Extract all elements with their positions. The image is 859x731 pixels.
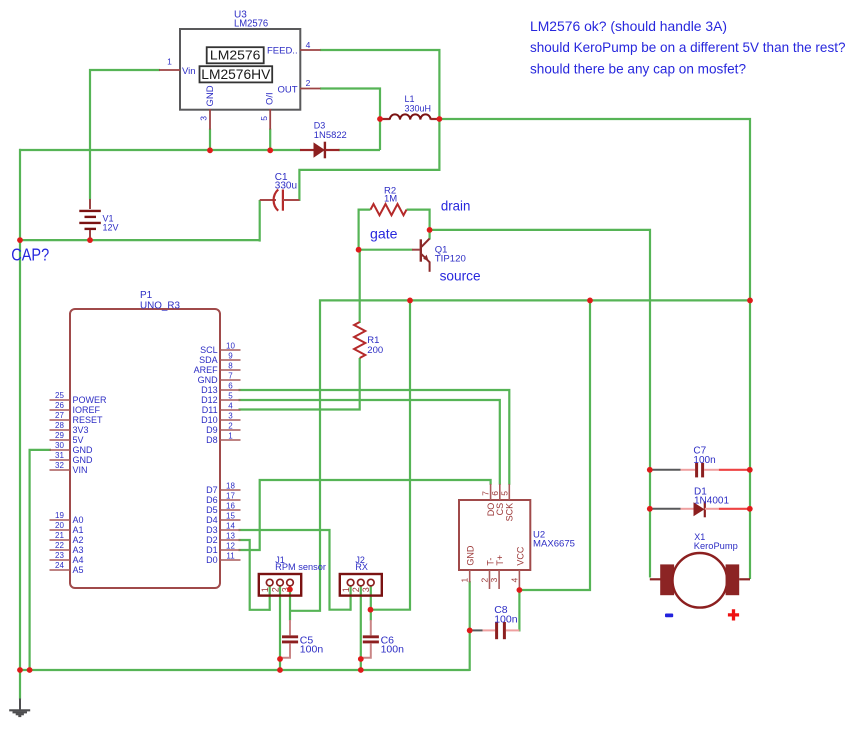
wire D13 to U2 SCK bbox=[239, 390, 510, 485]
svg-text:LM2576HV: LM2576HV bbox=[201, 67, 270, 82]
wire U2 VCC down to C8 bbox=[518, 589, 520, 632]
wire Vin input from battery + bbox=[90, 70, 160, 199]
D1 left lead grey bbox=[651, 508, 681, 510]
P1 pin 28 3V3 bbox=[50, 429, 71, 431]
P1 pin 19 A0 bbox=[50, 519, 71, 521]
pin 3 GND stub bbox=[209, 109, 211, 130]
C7 plate right bbox=[701, 463, 704, 478]
svg-text:18: 18 bbox=[226, 481, 235, 490]
svg-text:GND: GND bbox=[198, 375, 219, 385]
V1 plate long 1 bbox=[79, 210, 101, 212]
svg-text:6: 6 bbox=[228, 381, 233, 390]
junction C7 left bbox=[647, 467, 653, 473]
svg-text:D4: D4 bbox=[206, 515, 218, 525]
C8 right lead bbox=[506, 629, 519, 631]
svg-text:D1: D1 bbox=[206, 545, 218, 555]
P1 pin 29 5V bbox=[50, 439, 71, 441]
U2 pin 3 T+ bbox=[498, 570, 500, 589]
junction U3 GND / bus bbox=[207, 147, 213, 153]
wire 5V rail: L1 out right and down to pump + bbox=[439, 119, 750, 579]
svg-text:3: 3 bbox=[199, 116, 209, 121]
svg-text:IOREF: IOREF bbox=[73, 405, 101, 415]
P1 pin 10 SCL bbox=[220, 349, 241, 351]
J2 pin 2 circle bbox=[358, 579, 365, 586]
P1 pin 15 D4 bbox=[220, 519, 241, 521]
junction drain node bbox=[427, 227, 433, 233]
svg-text:LM2576: LM2576 bbox=[234, 19, 269, 30]
svg-text:17: 17 bbox=[226, 491, 235, 500]
svg-text:32: 32 bbox=[55, 461, 64, 470]
svg-text:5: 5 bbox=[499, 491, 509, 496]
P1 pin 24 A5 bbox=[50, 569, 71, 571]
Q1 emitter diagonal bbox=[422, 254, 430, 262]
svg-text:30: 30 bbox=[55, 441, 64, 450]
P1 pin 7 GND bbox=[220, 379, 241, 381]
svg-text:D3: D3 bbox=[314, 121, 326, 131]
svg-text:TIP120: TIP120 bbox=[435, 254, 466, 265]
svg-text:31: 31 bbox=[55, 451, 64, 460]
pin 2 OUT stub bbox=[300, 88, 321, 90]
Q1 emitter stub bbox=[429, 262, 431, 272]
svg-text:11: 11 bbox=[226, 551, 235, 560]
wire D2 to J1 pin1 bbox=[239, 540, 271, 610]
P1 pin 1 D8 bbox=[220, 439, 241, 441]
wire left vertical GND (x=20) bbox=[19, 149, 21, 671]
wire GND bus upper (y=150) bbox=[19, 149, 300, 151]
P1 pin 6 D13 bbox=[220, 389, 241, 391]
inductor L1 330uH bbox=[380, 118, 390, 120]
U2 pin 6 CS bbox=[499, 484, 501, 500]
junction C7 right bbox=[747, 467, 753, 473]
svg-text:19: 19 bbox=[55, 511, 64, 520]
svg-text:12V: 12V bbox=[103, 223, 119, 233]
P1 pin 21 A2 bbox=[50, 539, 71, 541]
C7 right lead pink bbox=[704, 469, 719, 471]
wire Q1 collector stub bbox=[429, 229, 431, 240]
svg-text:1N4001: 1N4001 bbox=[694, 496, 729, 507]
junction J2 pin3 / 5V bbox=[368, 607, 374, 613]
wire D1 to U2 DO bbox=[239, 480, 491, 550]
wire J1 pin2 stub down to GND bus bbox=[279, 586, 281, 671]
P1 pin 3 D10 bbox=[220, 419, 241, 421]
wire J2 pin1 stub bbox=[350, 586, 352, 611]
P1 pin 5 D12 bbox=[220, 399, 241, 401]
svg-text:Vin: Vin bbox=[182, 66, 196, 77]
wire U2 GND riser to bus bbox=[469, 581, 471, 671]
P1 pin 31 GND bbox=[50, 459, 71, 461]
V1 plate long 2 bbox=[79, 222, 101, 224]
wire U3 O/I pin to bus bbox=[269, 129, 271, 151]
junction gate node bbox=[356, 247, 362, 253]
junction switch node / L1 left bbox=[377, 116, 383, 122]
svg-text:1: 1 bbox=[460, 578, 470, 583]
svg-text:26: 26 bbox=[55, 401, 64, 410]
IC P1 UNO_R3 Arduino box bbox=[70, 309, 220, 588]
wire C1 left lead riser bbox=[259, 200, 261, 242]
label LM2576 black box bbox=[207, 47, 264, 63]
svg-text:A2: A2 bbox=[73, 535, 84, 545]
svg-text:P1: P1 bbox=[140, 290, 153, 301]
svg-text:GND: GND bbox=[73, 445, 94, 455]
junction U2 VCC bbox=[517, 587, 523, 593]
wire drain net: Q1 collector to pump - bbox=[430, 230, 650, 578]
svg-text:5: 5 bbox=[228, 391, 233, 400]
svg-text:28: 28 bbox=[55, 421, 64, 430]
svg-text:A1: A1 bbox=[73, 525, 84, 535]
P1 pin 9 SDA bbox=[220, 359, 241, 361]
pin 1 Vin stub bbox=[159, 69, 180, 71]
svg-text:LM2576 ok? (should handle 3A): LM2576 ok? (should handle 3A) bbox=[530, 18, 727, 34]
wire R2 right to drain node bbox=[407, 210, 430, 231]
svg-text:OUT: OUT bbox=[278, 84, 298, 95]
P1 pin 22 A3 bbox=[50, 549, 71, 551]
svg-text:23: 23 bbox=[55, 551, 64, 560]
svg-text:5V: 5V bbox=[73, 435, 84, 445]
wire D3 to J2 pin1 bbox=[239, 530, 352, 610]
C1 straight plate bbox=[282, 190, 284, 211]
junction 5V bus / pump drop bbox=[747, 298, 753, 304]
svg-text:D13: D13 bbox=[201, 385, 218, 395]
svg-text:VCC: VCC bbox=[515, 546, 525, 566]
P1 pin 4 D11 bbox=[220, 409, 241, 411]
svg-text:3: 3 bbox=[361, 587, 371, 592]
C7 left lead pink bbox=[681, 469, 696, 471]
P1 pin 17 D6 bbox=[220, 499, 241, 501]
C7 left lead grey bbox=[651, 469, 681, 471]
svg-text:13: 13 bbox=[226, 531, 235, 540]
svg-text:3V3: 3V3 bbox=[73, 425, 89, 435]
junction D1 left bbox=[647, 506, 653, 512]
J2 pin 3 circle bbox=[368, 579, 375, 586]
svg-text:7: 7 bbox=[228, 371, 233, 380]
ground symbol GND earth bbox=[19, 699, 21, 710]
svg-text:1: 1 bbox=[228, 431, 233, 440]
svg-text:D6: D6 bbox=[206, 495, 218, 505]
svg-text:SCL: SCL bbox=[200, 345, 218, 355]
svg-text:MAX6675: MAX6675 bbox=[533, 538, 575, 549]
svg-text:VIN: VIN bbox=[73, 465, 88, 475]
svg-text:POWER: POWER bbox=[73, 395, 108, 405]
C8 plate right bbox=[503, 622, 506, 639]
junction U3 O-I / bus bbox=[267, 147, 273, 153]
U2 pin 5 SCK bbox=[508, 484, 510, 500]
svg-text:100n: 100n bbox=[494, 613, 518, 625]
label LM2576HV black box bbox=[200, 66, 273, 82]
svg-text:D7: D7 bbox=[206, 485, 218, 495]
D1 cathode bar bbox=[704, 501, 706, 517]
op-amp U3 LM2576 regulator box bbox=[180, 29, 300, 110]
P1 pin 13 D2 bbox=[220, 539, 241, 541]
svg-text:O/I: O/I bbox=[264, 92, 275, 105]
J1 pin 2 circle bbox=[277, 579, 284, 586]
D1 right lead red bbox=[719, 508, 749, 510]
svg-text:21: 21 bbox=[55, 531, 64, 540]
P1 pin 32 VIN bbox=[50, 469, 71, 471]
C1 right lead bbox=[283, 199, 300, 201]
wire D3 cathode to switch node bbox=[339, 149, 381, 151]
P1 pin 12 D1 bbox=[220, 549, 241, 551]
IC U2 MAX6675 box bbox=[459, 500, 530, 570]
P1 pin 20 A1 bbox=[50, 529, 71, 531]
svg-text:16: 16 bbox=[226, 501, 235, 510]
Q1 base bar bbox=[420, 239, 422, 261]
svg-text:SCK: SCK bbox=[505, 503, 515, 522]
P1 pin 25 POWER bbox=[50, 399, 71, 401]
svg-text:D9: D9 bbox=[206, 425, 218, 435]
P1 pin 30 GND bbox=[50, 449, 71, 451]
svg-text:drain: drain bbox=[441, 198, 471, 214]
wire U3 FEED.. to output node bbox=[320, 50, 439, 120]
Q1 collector diagonal bbox=[422, 239, 430, 247]
C6 plate top bbox=[363, 635, 379, 638]
svg-text:A0: A0 bbox=[73, 515, 84, 525]
svg-text:12: 12 bbox=[226, 541, 235, 550]
svg-text:SDA: SDA bbox=[199, 355, 218, 365]
X1 right lead bbox=[739, 578, 750, 580]
svg-text:1N5822: 1N5822 bbox=[314, 130, 347, 140]
junction C5 / J1 pin2 bbox=[277, 656, 283, 662]
svg-text:2: 2 bbox=[270, 587, 280, 592]
C5 plate bottom bbox=[282, 640, 298, 643]
svg-text:3: 3 bbox=[228, 411, 233, 420]
diode D3 1N5822 bbox=[300, 149, 314, 151]
C7 plate left bbox=[695, 463, 698, 478]
junction battery - / bus bbox=[87, 237, 93, 243]
wire J2 pin2 stub down to GND bus bbox=[360, 586, 362, 671]
svg-text:4: 4 bbox=[509, 578, 519, 583]
junction J2 pin2 / GND bus bbox=[358, 667, 364, 673]
svg-text:D2: D2 bbox=[206, 535, 218, 545]
wire C1 + to output node bbox=[299, 118, 439, 201]
svg-text:source: source bbox=[440, 267, 481, 283]
junction C8 left / GND riser bbox=[467, 628, 473, 634]
svg-text:KeroPump: KeroPump bbox=[694, 541, 738, 551]
Q1 base lead bbox=[412, 249, 420, 251]
wire U3 OUT to switch node bbox=[320, 89, 380, 151]
svg-text:330uH: 330uH bbox=[405, 103, 432, 113]
svg-text:UNO_R3: UNO_R3 bbox=[140, 301, 180, 312]
svg-text:LM2576: LM2576 bbox=[210, 48, 261, 63]
P1 pin 18 D7 bbox=[220, 489, 241, 491]
svg-text:T-: T- bbox=[486, 558, 496, 566]
svg-text:2: 2 bbox=[351, 587, 361, 592]
svg-text:1: 1 bbox=[260, 587, 270, 592]
svg-text:GND: GND bbox=[205, 85, 216, 106]
svg-text:D12: D12 bbox=[201, 395, 218, 405]
junction J1 pin3 bbox=[287, 587, 293, 593]
svg-text:4: 4 bbox=[228, 401, 233, 410]
svg-text:A5: A5 bbox=[73, 565, 84, 575]
svg-text:GND: GND bbox=[73, 455, 94, 465]
C6 plate bottom bbox=[363, 640, 379, 643]
svg-text:should there be any cap on mos: should there be any cap on mosfet? bbox=[530, 61, 746, 77]
C5 plate top bbox=[282, 635, 298, 638]
junction C6 / J2 pin2 bbox=[358, 656, 364, 662]
C8 left lead pink bbox=[483, 629, 496, 631]
svg-text:100n: 100n bbox=[693, 455, 715, 466]
P1 pin 11 D0 bbox=[220, 559, 241, 561]
junction J1 pin2 / GND bus bbox=[277, 667, 283, 673]
wire to ground symbol bbox=[19, 669, 21, 700]
wire gate node down to R1 bbox=[359, 249, 361, 323]
svg-text:6: 6 bbox=[490, 491, 500, 496]
U2 pin 2 T- bbox=[489, 570, 491, 589]
svg-text:CAP?: CAP? bbox=[11, 244, 49, 264]
svg-text:200: 200 bbox=[367, 345, 383, 356]
X1 left lead bbox=[650, 578, 661, 580]
J1 pin 1 circle bbox=[266, 579, 273, 586]
P1 pin 27 RESET bbox=[50, 419, 71, 421]
svg-text:1: 1 bbox=[341, 587, 351, 592]
P1 pin 2 D9 bbox=[220, 429, 241, 431]
svg-text:10: 10 bbox=[226, 341, 235, 350]
svg-text:RESET: RESET bbox=[73, 415, 104, 425]
V1 plate short 1 bbox=[85, 216, 97, 218]
wire gate net to Q1 base bbox=[359, 249, 413, 251]
resistor R2 1M bbox=[371, 204, 407, 215]
svg-text:25: 25 bbox=[55, 391, 64, 400]
svg-text:D0: D0 bbox=[206, 555, 218, 565]
wire P1 GND(30) to bottom GND bus bbox=[30, 450, 51, 671]
U2 pin 7 DO bbox=[490, 484, 492, 500]
svg-text:100n: 100n bbox=[381, 644, 405, 656]
junction left GND bus bbox=[17, 237, 23, 243]
svg-text:5: 5 bbox=[259, 116, 269, 121]
svg-text:T+: T+ bbox=[495, 555, 505, 566]
X1 minus terminal bbox=[665, 614, 673, 618]
svg-text:D5: D5 bbox=[206, 505, 218, 515]
svg-text:14: 14 bbox=[226, 521, 235, 530]
svg-text:FEED..: FEED.. bbox=[267, 46, 298, 57]
U2 pin 4 VCC bbox=[518, 570, 520, 588]
wire 5V rail to J2 pin3 bbox=[370, 300, 411, 610]
svg-text:should KeroPump be on a differ: should KeroPump be on a different 5V tha… bbox=[530, 39, 846, 55]
C8 left lead grey bbox=[471, 629, 483, 631]
junction L1 right / FEED / C1 bbox=[437, 116, 443, 122]
J2 pin 1 circle bbox=[347, 579, 354, 586]
svg-text:A4: A4 bbox=[73, 555, 84, 565]
svg-text:330u: 330u bbox=[275, 181, 297, 192]
wire GND bus (y=240) battery row bbox=[19, 239, 260, 241]
svg-text:20: 20 bbox=[55, 521, 64, 530]
svg-text:2: 2 bbox=[480, 578, 490, 583]
svg-text:D11: D11 bbox=[202, 405, 218, 415]
svg-text:100n: 100n bbox=[300, 644, 324, 656]
svg-text:D10: D10 bbox=[201, 415, 218, 425]
svg-text:29: 29 bbox=[55, 431, 64, 440]
wire R1 bottom to D11 bbox=[239, 358, 360, 410]
wire bottom GND bus (y=670) bbox=[19, 669, 470, 671]
pin 5 O/I stub bbox=[269, 109, 271, 130]
junction 5V bus / J2 pin3 drop bbox=[407, 298, 413, 304]
C1 left lead bbox=[260, 199, 276, 201]
svg-text:D3: D3 bbox=[206, 525, 218, 535]
C7 right lead red bbox=[719, 469, 749, 471]
wire J1 pin3 stub bbox=[289, 586, 291, 621]
svg-text:4: 4 bbox=[306, 40, 311, 50]
D1 right lead pink bbox=[705, 508, 719, 510]
svg-text:24: 24 bbox=[55, 561, 64, 570]
junction left GND bus bottom bbox=[17, 667, 23, 673]
X1 plus terminal bbox=[728, 609, 739, 620]
J1 pin 3 circle bbox=[287, 579, 294, 586]
svg-text:A3: A3 bbox=[73, 545, 84, 555]
P1 pin 23 A4 bbox=[50, 559, 71, 561]
svg-text:2: 2 bbox=[228, 421, 233, 430]
C6 top lead bbox=[370, 620, 372, 635]
svg-text:gate: gate bbox=[370, 226, 398, 242]
svg-text:27: 27 bbox=[55, 411, 64, 420]
svg-text:3: 3 bbox=[489, 578, 499, 583]
svg-text:D8: D8 bbox=[206, 435, 218, 445]
wire J1 pin1 stub bbox=[269, 586, 271, 611]
wire 5V rail to U2 VCC bbox=[519, 300, 591, 591]
P1 pin 26 IOREF bbox=[50, 409, 71, 411]
resistor R1 200 bbox=[354, 322, 365, 358]
wire R2 left to gate node bbox=[359, 210, 371, 250]
svg-text:15: 15 bbox=[226, 511, 235, 520]
svg-text:CS: CS bbox=[495, 503, 505, 516]
svg-text:GND: GND bbox=[466, 545, 476, 566]
junction D1 right bbox=[747, 506, 753, 512]
svg-text:1: 1 bbox=[167, 57, 172, 67]
connector J2 RX bbox=[340, 574, 382, 596]
svg-text:22: 22 bbox=[55, 541, 64, 550]
junction 5V bus / VCC drop bbox=[587, 298, 593, 304]
junction P1 GND wire / bus bbox=[27, 667, 33, 673]
C5 bottom lead bbox=[281, 643, 290, 657]
D1 left lead pink bbox=[681, 508, 694, 510]
wire battery - to GND bus bbox=[89, 237, 91, 241]
svg-text:8: 8 bbox=[228, 361, 233, 370]
U2 pin 1 GND bbox=[469, 570, 471, 583]
P1 pin 14 D3 bbox=[220, 529, 241, 531]
connector J1 RPM sensor bbox=[259, 574, 301, 596]
P1 pin 16 D5 bbox=[220, 509, 241, 511]
svg-text:1M: 1M bbox=[384, 194, 397, 205]
svg-text:RPM sensor: RPM sensor bbox=[275, 562, 326, 572]
pin 4 FEED.. stub bbox=[300, 49, 321, 51]
wire 5V rail bus (y=301) and drop to J1 pin3 bbox=[289, 300, 751, 610]
wire U3 GND pin to bus bbox=[209, 129, 211, 151]
V1 plate short 2 bbox=[85, 228, 97, 230]
V1 bottom lead bbox=[89, 230, 91, 238]
wire D12 to U2 CS bbox=[239, 400, 500, 485]
C6 bottom lead bbox=[361, 643, 370, 657]
C8 plate left bbox=[495, 622, 498, 639]
svg-text:9: 9 bbox=[228, 351, 233, 360]
wire J2 pin3 stub bbox=[370, 586, 372, 621]
C5 top lead bbox=[289, 620, 291, 635]
svg-text:RX: RX bbox=[355, 562, 368, 572]
svg-text:2: 2 bbox=[306, 78, 311, 88]
V1 top lead bbox=[89, 199, 91, 209]
P1 pin 8 AREF bbox=[220, 369, 241, 371]
svg-text:AREF: AREF bbox=[194, 365, 219, 375]
